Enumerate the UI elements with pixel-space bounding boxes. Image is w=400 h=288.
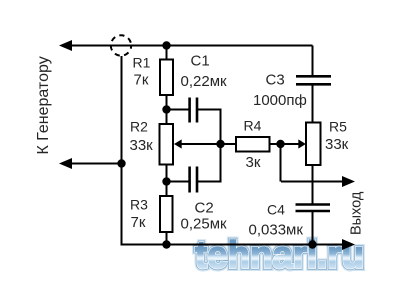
wire C2 corner up to node C	[198, 144, 221, 182]
svg-text:7к: 7к	[131, 214, 146, 231]
resistor R4	[236, 137, 270, 152]
svg-text:3к: 3к	[246, 154, 261, 171]
svg-text:R4: R4	[244, 118, 262, 134]
wire R1 to node B	[166, 95, 168, 110]
svg-text:R5: R5	[329, 119, 347, 135]
wire R5 to output junction	[312, 165, 314, 182]
capacitor C3 plates	[296, 76, 331, 84]
svg-text:7к: 7к	[134, 72, 149, 89]
resistor R2 (potentiometer)	[160, 124, 174, 165]
wire node B to C1	[167, 109, 189, 111]
svg-text:C1: C1	[191, 53, 210, 70]
wire output junction down to C4	[312, 182, 314, 205]
resistor R5 (potentiometer)	[306, 123, 321, 166]
wire top rail	[70, 45, 313, 47]
svg-text:R1: R1	[133, 55, 151, 71]
node E	[276, 140, 284, 148]
svg-text:33к: 33к	[325, 136, 349, 153]
wire right vertical to C3	[312, 46, 314, 77]
capacitor C4 plates	[296, 205, 331, 212]
node left junction	[117, 159, 125, 167]
svg-text:0,033мк: 0,033мк	[249, 222, 304, 239]
svg-text:C3: C3	[266, 72, 285, 89]
arrow R5 wiper	[298, 139, 306, 148]
svg-text:C4: C4	[267, 202, 285, 218]
arrow input bottom	[59, 158, 72, 169]
wire node A to R1	[166, 46, 168, 61]
svg-text:Выход: Выход	[349, 191, 365, 235]
svg-text:К Генератору: К Генератору	[35, 56, 52, 154]
wire R4 to R5 arrow	[270, 143, 300, 145]
wire node E down to output row	[280, 144, 282, 182]
svg-text:tehnari.ru: tehnari.ru	[195, 235, 364, 277]
svg-text:R3: R3	[130, 197, 148, 213]
resistor R1	[160, 60, 173, 96]
node B	[162, 105, 170, 113]
watermark tehnari.ru	[195, 235, 364, 277]
wire left arrow row	[70, 163, 122, 165]
wire bottom rail	[122, 244, 345, 246]
arrow input top	[59, 40, 72, 51]
node D	[162, 177, 170, 185]
arrow output top	[342, 176, 355, 187]
svg-text:C2: C2	[195, 200, 214, 217]
wire node D to R3	[166, 182, 168, 197]
svg-text:1000пф: 1000пф	[253, 92, 307, 109]
node A	[162, 41, 170, 49]
capacitor C2 plates	[190, 167, 197, 193]
wire output row	[281, 181, 344, 183]
connector dashed circle	[111, 35, 131, 55]
node bottom R3	[162, 240, 170, 248]
wire left vertical	[121, 56, 123, 246]
node bottom C4	[308, 240, 316, 248]
capacitor C1 plates	[190, 98, 197, 123]
wire node D to C2	[167, 181, 189, 183]
arrow output bottom	[342, 239, 355, 250]
wire R3 to bottom rail	[166, 232, 168, 245]
svg-text:0,25мк: 0,25мк	[181, 216, 228, 233]
wire R2 to node D	[166, 165, 168, 183]
resistor R3	[160, 196, 173, 232]
svg-text:0,22мк: 0,22мк	[181, 73, 228, 90]
wire wiper rail R2 to R4	[181, 143, 236, 145]
wire C3 to R5	[312, 85, 314, 123]
wire C4 to bottom rail	[312, 211, 314, 245]
svg-text:33к: 33к	[130, 137, 154, 154]
wire node B to R2	[166, 110, 168, 125]
node C	[216, 140, 224, 148]
arrow R2 wiper	[174, 139, 182, 148]
wire C1 to corner down to node C	[198, 110, 221, 145]
svg-text:R2: R2	[130, 119, 148, 135]
